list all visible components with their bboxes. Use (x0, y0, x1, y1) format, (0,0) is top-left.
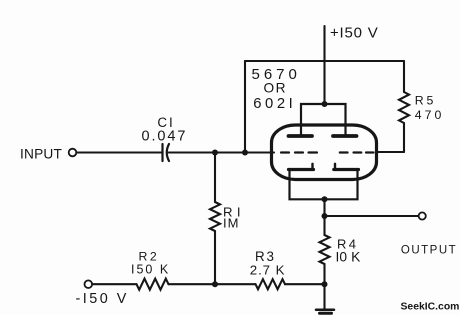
svg-text:+I50 V: +I50 V (330, 25, 379, 42)
node plate junction (322, 101, 328, 107)
wire +150V supply lead (323, 26, 325, 104)
tube U1 cathodes (289, 164, 359, 200)
tube U1 grids (dashed) (281, 151, 374, 153)
node cathode junction (322, 196, 328, 202)
svg-text:2.7 K: 2.7 K (250, 262, 286, 277)
label R1 value (223, 205, 245, 231)
label R5 value (415, 94, 445, 123)
svg-text:SeekIC.com: SeekIC.com (401, 302, 460, 313)
wire cathode stem (323, 199, 325, 216)
wire -150V bus middle segment (169, 283, 256, 285)
wire C1 to grid 1 (169, 151, 275, 153)
svg-text:I0 K: I0 K (336, 249, 362, 264)
resistor R1 (210, 153, 220, 285)
label R3 value (250, 249, 286, 277)
label C1 value (142, 115, 188, 145)
wire left riser (input node to top bus) (244, 61, 246, 153)
svg-text:OR: OR (264, 81, 288, 96)
wire top bus (245, 60, 404, 62)
wire R5 to grid 2 (378, 151, 405, 153)
svg-text:R2: R2 (139, 249, 160, 263)
tube U1 plates (289, 104, 357, 136)
svg-text:602I: 602I (253, 96, 296, 112)
resistor R2 (137, 279, 169, 290)
tube U1 envelope (272, 125, 377, 180)
ground (316, 284, 334, 313)
resistor R5 (399, 61, 409, 152)
label tube type 5670 OR 6021 (252, 66, 301, 112)
svg-text:R5: R5 (415, 94, 436, 108)
svg-text:IM: IM (223, 215, 239, 230)
wire -150V bus left segment (92, 283, 136, 285)
wire input terminal to C1 (77, 151, 163, 153)
svg-text:INPUT: INPUT (20, 146, 63, 161)
resistor R4 (320, 216, 330, 284)
capacitor C1 (163, 144, 170, 161)
terminal -150V (85, 280, 93, 288)
node output junction (322, 213, 328, 219)
node R4 ground junction (322, 281, 328, 287)
terminal INPUT (69, 149, 77, 157)
svg-text:OUTPUT: OUTPUT (401, 245, 457, 257)
svg-text:-I50 V: -I50 V (76, 291, 129, 307)
wire to output terminal (325, 215, 419, 217)
terminal OUTPUT (419, 212, 426, 219)
node R1 bottom junction (212, 281, 218, 287)
label R2 value (131, 249, 170, 276)
node grid bus junction (242, 150, 248, 156)
svg-text:I50 K: I50 K (131, 263, 170, 277)
svg-text:470: 470 (415, 108, 445, 122)
wire -150V bus right segment (285, 283, 325, 285)
node R1 top junction (212, 150, 218, 156)
resistor R3 (256, 279, 286, 289)
label R4 value (336, 237, 362, 265)
svg-text:0.047: 0.047 (142, 129, 188, 145)
